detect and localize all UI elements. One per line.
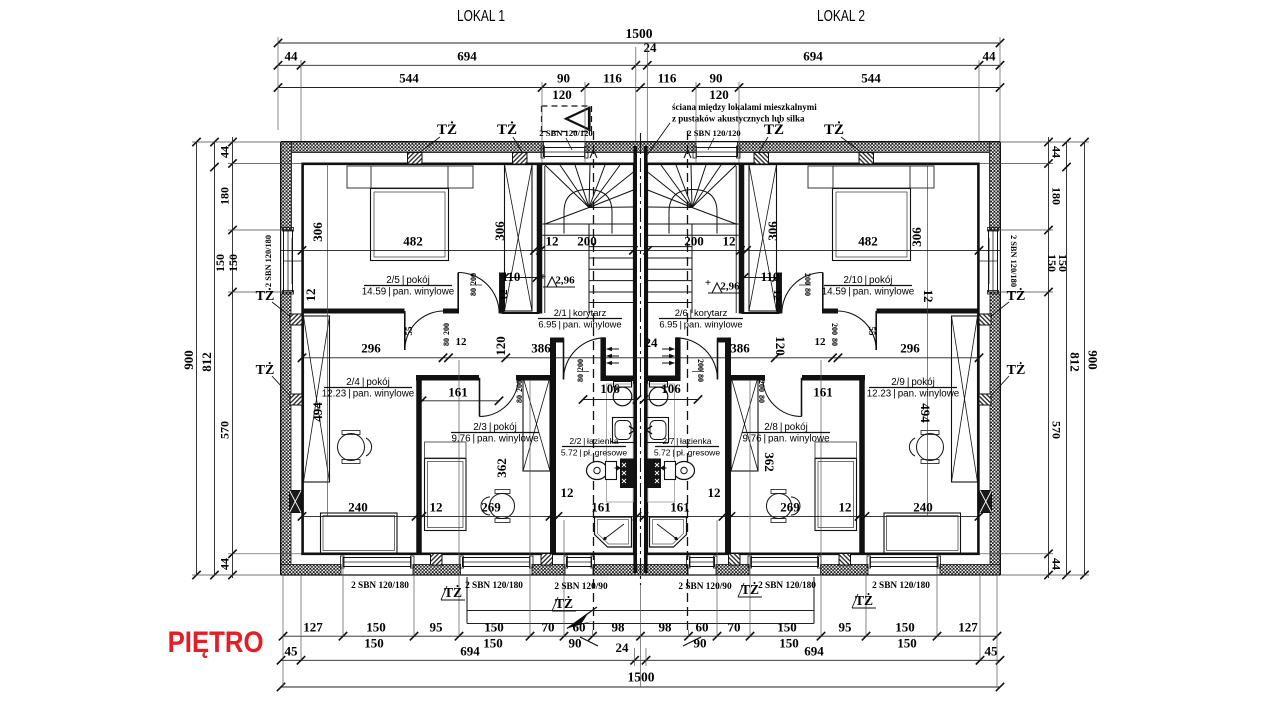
right extension lines: [1000, 141, 1089, 143]
svg-text:44: 44: [1050, 146, 1064, 158]
level mark 2,96 left: [540, 271, 575, 287]
svg-text:LOKAL 2: LOKAL 2: [817, 8, 865, 25]
svg-text:694: 694: [457, 49, 477, 64]
svg-text:98: 98: [659, 620, 673, 635]
washer 2/2: [621, 459, 634, 488]
wall hatch left: [281, 142, 292, 230]
svg-text:z pustaków akustycznych lub si: z pustaków akustycznych lub silka: [672, 114, 805, 124]
svg-text:60: 60: [573, 620, 586, 635]
svg-text:95: 95: [430, 620, 444, 635]
svg-text:2 SBN 120/180: 2 SBN 120/180: [264, 235, 273, 287]
label room 2/5: [362, 275, 455, 298]
party wall centerline dash-dot: [640, 133, 642, 585]
label bath 2/2: [561, 436, 628, 458]
svg-text:PIĘTRO: PIĘTRO: [168, 626, 264, 659]
svg-text:200: 200: [577, 234, 597, 249]
svg-text:14.59 | pan. winylowe: 14.59 | pan. winylowe: [822, 287, 915, 298]
top dim row 544/90/116: [278, 87, 1000, 89]
svg-text:12: 12: [303, 289, 318, 302]
svg-text:161: 161: [591, 500, 611, 515]
svg-text:80: 80: [442, 338, 451, 346]
svg-text:2/4 | pokój: 2/4 | pokój: [346, 377, 390, 388]
svg-text:98: 98: [612, 620, 626, 635]
svg-text:2/7 | łazienka: 2/7 | łazienka: [662, 436, 711, 446]
wall W3 stair left: [537, 163, 543, 314]
svg-text:2/10 | pokój: 2/10 | pokój: [844, 275, 893, 286]
svg-text:150: 150: [1056, 254, 1070, 272]
bed room 2/3: [425, 459, 467, 531]
svg-text:45: 45: [985, 644, 999, 659]
svg-text:12: 12: [498, 289, 510, 301]
svg-text:150: 150: [366, 620, 386, 635]
svg-text:12: 12: [815, 336, 827, 348]
svg-text:80: 80: [696, 374, 705, 382]
svg-text:200: 200: [576, 359, 585, 371]
svg-text:570: 570: [1050, 421, 1064, 439]
svg-text:14.59 | pan. winylowe: 14.59 | pan. winylowe: [362, 287, 455, 298]
window bottom 1 (room 2/4): [343, 558, 411, 567]
svg-text:90: 90: [710, 71, 723, 86]
bed room 2/5: [371, 189, 449, 261]
svg-text:269: 269: [780, 500, 800, 515]
svg-text:2 SBN 120/120: 2 SBN 120/120: [687, 128, 740, 138]
right dim col 900: [1084, 142, 1086, 575]
svg-text:200: 200: [515, 380, 524, 392]
svg-text:306: 306: [909, 227, 924, 247]
svg-text:362: 362: [762, 452, 777, 472]
svg-text:TŻ: TŻ: [437, 121, 457, 138]
left dim col 812: [214, 142, 216, 575]
desk room 2/4: [321, 513, 398, 553]
svg-text:24: 24: [616, 640, 630, 655]
window bottom 2 (room 2/3): [463, 558, 531, 567]
svg-text:44: 44: [983, 49, 997, 64]
wall E bath niche: [601, 375, 637, 381]
svg-text:306: 306: [765, 221, 780, 241]
dim 110 right: [744, 277, 777, 279]
wall D bath lobby: [600, 338, 606, 381]
svg-text:161: 161: [670, 500, 690, 515]
svg-text:12: 12: [771, 290, 783, 302]
sink 2/2: [613, 418, 635, 443]
svg-text:80: 80: [576, 374, 585, 382]
TZ block left wall 1: [290, 314, 302, 325]
svg-text:2/8 | pokój: 2/8 | pokój: [764, 422, 808, 433]
svg-text:2/6 | korytarz: 2/6 | korytarz: [675, 307, 728, 318]
svg-text:150: 150: [777, 620, 797, 635]
svg-text:TŻ: TŻ: [824, 121, 844, 138]
svg-text:150: 150: [226, 254, 240, 272]
level mark 2,96 right: [705, 277, 740, 293]
svg-text:120: 120: [709, 87, 729, 102]
svg-text:2 SBN 120/180: 2 SBN 120/180: [465, 581, 523, 591]
svg-text:110: 110: [761, 269, 780, 284]
door room 2/4: [404, 311, 406, 350]
svg-text:2 SBN 120/120: 2 SBN 120/120: [539, 128, 592, 138]
wall hatch top-left: [281, 142, 544, 153]
label corridor 2/6: [659, 307, 743, 330]
radiator arrows corridor: [607, 348, 620, 350]
door bathroom: [563, 338, 565, 380]
svg-text:12: 12: [561, 485, 574, 500]
inner wall line left: [301, 163, 304, 556]
svg-text:TŻ: TŻ: [497, 121, 517, 138]
right dim col 44/180/150/570/44: [1048, 137, 1050, 578]
wall F bath/room2/3: [550, 338, 556, 555]
svg-text:1500: 1500: [626, 26, 653, 41]
svg-text:70: 70: [542, 620, 555, 635]
wall hatch bottom-left: [281, 565, 341, 576]
svg-text:12: 12: [708, 485, 721, 500]
right dim col 812: [1066, 142, 1068, 575]
svg-text:482: 482: [858, 234, 878, 249]
chair room 2/4: [338, 434, 365, 461]
svg-text:2/2 | łazienka: 2/2 | łazienka: [569, 436, 618, 446]
svg-text:5.72 | pł. gresowe: 5.72 | pł. gresowe: [561, 448, 628, 458]
svg-text:127: 127: [958, 620, 978, 635]
svg-text:TŻ: TŻ: [256, 287, 275, 304]
svg-text:200: 200: [442, 323, 451, 335]
left extension lines: [192, 141, 281, 143]
svg-text:TŻ: TŻ: [256, 361, 275, 378]
svg-text:269: 269: [481, 500, 501, 515]
svg-text:90: 90: [557, 71, 570, 86]
svg-text:150: 150: [484, 620, 504, 635]
wardrobe room 2/5: [505, 165, 533, 312]
svg-text:694: 694: [460, 644, 480, 659]
label room 2/8: [742, 422, 830, 445]
svg-text:TŻ: TŻ: [764, 121, 784, 138]
svg-text:544: 544: [399, 71, 419, 86]
svg-text:150: 150: [897, 636, 917, 651]
svg-text:240: 240: [348, 500, 368, 515]
svg-text:45: 45: [285, 644, 299, 659]
top dim row 44/694/24/694/44: [278, 64, 1000, 66]
svg-text:80: 80: [515, 395, 524, 403]
bathroom finish outline: [607, 384, 634, 502]
svg-text:180: 180: [218, 187, 232, 205]
chimney block left wall: [290, 491, 302, 513]
svg-text:2 SBN 120/180: 2 SBN 120/180: [872, 581, 930, 591]
wardrobe room 2/4: [304, 316, 330, 482]
svg-text:2 SBN 120/90: 2 SBN 120/90: [554, 582, 608, 592]
wall W1 room2/5 bottom: [302, 309, 405, 314]
dim 161 room 2/3: [422, 400, 499, 402]
svg-text:812: 812: [1068, 352, 1083, 372]
svg-text:44: 44: [285, 49, 299, 64]
svg-text:306: 306: [310, 222, 325, 242]
svg-text:2/9 | pokój: 2/9 | pokój: [891, 377, 935, 388]
svg-text:240: 240: [913, 500, 933, 515]
door room 2/3: [479, 378, 481, 417]
svg-text:900: 900: [1086, 350, 1101, 370]
inner wall line bottom: [301, 552, 637, 555]
svg-text:44: 44: [1050, 558, 1064, 570]
svg-text:116: 116: [658, 71, 677, 86]
toilet 2/2: [614, 382, 632, 388]
svg-text:+: +: [705, 277, 711, 289]
label corridor 2/1: [538, 307, 622, 330]
TZ block left wall 2: [290, 394, 302, 405]
svg-text:2/5 | pokój: 2/5 | pokój: [386, 275, 430, 286]
left dim col 900: [196, 142, 198, 575]
svg-text:161: 161: [813, 385, 833, 400]
svg-text:2 SBN 120/180: 2 SBN 120/180: [1009, 235, 1018, 287]
bottom bracket: [466, 577, 468, 624]
svg-text:494: 494: [310, 402, 325, 422]
svg-text:9.76 | pan. winylowe: 9.76 | pan. winylowe: [742, 434, 830, 445]
WC side 2/2: [587, 462, 608, 480]
inner wall line top: [302, 163, 634, 166]
wall W7 room2/3 top: [416, 375, 479, 381]
svg-text:80: 80: [803, 288, 812, 296]
stair stringer line: [544, 166, 546, 313]
svg-text:90: 90: [569, 636, 582, 651]
svg-text:2/3 | pokój: 2/3 | pokój: [473, 422, 517, 433]
TZ block bottom wall 2: [541, 554, 553, 566]
svg-text:2,96: 2,96: [720, 281, 740, 293]
svg-text:362: 362: [494, 458, 509, 478]
svg-text:80: 80: [757, 395, 766, 403]
svg-text:106: 106: [600, 381, 620, 396]
shower 2/2: [595, 517, 632, 547]
chain line y358: [302, 357, 979, 359]
svg-text:12: 12: [921, 290, 936, 303]
chair room 2/3: [490, 494, 515, 519]
svg-text:494: 494: [918, 403, 933, 423]
dim 106 bath left: [583, 399, 637, 401]
stair walk dashed line: [593, 131, 595, 630]
window left wall 2 SBN 120/180: [284, 230, 293, 292]
svg-text:200: 200: [803, 273, 812, 285]
svg-text:12.23 | pan. winylowe: 12.23 | pan. winylowe: [322, 389, 415, 400]
svg-text:150: 150: [213, 254, 227, 272]
svg-text:200: 200: [696, 359, 705, 371]
svg-text:161: 161: [448, 385, 468, 400]
svg-text:2,96: 2,96: [555, 275, 575, 287]
svg-text:120: 120: [493, 336, 508, 356]
label room 2/9: [867, 377, 960, 400]
svg-text:60: 60: [696, 620, 709, 635]
left dim col 44/180/150/570/44: [232, 137, 234, 578]
svg-text:80: 80: [469, 288, 478, 296]
svg-text:386: 386: [531, 341, 551, 356]
stair winder arch: [564, 190, 612, 234]
svg-text:150: 150: [779, 636, 799, 651]
svg-text:ściana między lokalami mieszka: ściana między lokalami mieszkalnymi: [672, 102, 817, 112]
svg-text:694: 694: [804, 644, 824, 659]
bottom dim row3 1500: [281, 686, 1000, 688]
svg-text:1500: 1500: [628, 670, 655, 685]
shelf room 2/3: [425, 442, 467, 458]
svg-text:12: 12: [546, 234, 559, 249]
stair flight edge: [588, 224, 590, 313]
svg-text:200: 200: [684, 234, 704, 249]
svg-text:386: 386: [730, 341, 750, 356]
TZ block top wall 1: [408, 153, 423, 165]
stair treads lower flight: [543, 223, 634, 225]
svg-text:150: 150: [483, 636, 503, 651]
svg-text:90: 90: [694, 636, 707, 651]
svg-text:200: 200: [757, 380, 766, 392]
svg-text:+: +: [540, 271, 546, 283]
window top (stair) 2 SBN 120/120: [544, 148, 586, 157]
label bath 2/7: [654, 436, 721, 458]
svg-text:95: 95: [839, 620, 853, 635]
dim 106 bath right: [644, 399, 698, 401]
nightstands room 2/5: [347, 166, 473, 188]
svg-text:544: 544: [861, 71, 881, 86]
wardrobe room 2/3: [523, 377, 550, 471]
svg-text:70: 70: [728, 620, 741, 635]
svg-text:200: 200: [830, 323, 839, 335]
svg-text:6.95 | pan. winylowe: 6.95 | pan. winylowe: [659, 319, 742, 330]
svg-text:120: 120: [552, 87, 572, 102]
svg-text:200: 200: [469, 273, 478, 285]
svg-text:180: 180: [1050, 187, 1064, 205]
svg-text:296: 296: [361, 341, 381, 356]
svg-text:2 SBN 120/180: 2 SBN 120/180: [351, 581, 409, 591]
outer wall outline: [281, 141, 641, 143]
label room 2/10: [822, 275, 915, 298]
svg-text:12.23 | pan. winylowe: 12.23 | pan. winylowe: [867, 389, 960, 400]
label room 2/3: [451, 422, 539, 445]
svg-text:6.95 | pan. winylowe: 6.95 | pan. winylowe: [538, 319, 621, 330]
svg-text:24: 24: [644, 40, 658, 55]
svg-text:116: 116: [603, 71, 622, 86]
svg-text:296: 296: [900, 341, 920, 356]
svg-text:12: 12: [839, 500, 852, 515]
svg-text:2 SBN 120/180: 2 SBN 120/180: [758, 581, 816, 591]
svg-text:2 SBN 120/90: 2 SBN 120/90: [678, 582, 732, 592]
svg-text:106: 106: [661, 381, 681, 396]
section A marker bottom arrow: [567, 614, 594, 629]
wall stub W2: [499, 273, 505, 314]
svg-text:55: 55: [867, 327, 877, 337]
svg-text:812: 812: [199, 352, 214, 372]
svg-text:5.72 | pł. gresowe: 5.72 | pł. gresowe: [654, 448, 721, 458]
svg-text:44: 44: [218, 146, 232, 158]
party wall left leaf: [633, 146, 637, 573]
svg-text:24: 24: [645, 335, 659, 350]
bottom dim row2 45/694/24/694/45: [281, 659, 1000, 661]
svg-text:127: 127: [303, 620, 323, 635]
svg-text:306: 306: [492, 221, 507, 241]
svg-text:12: 12: [430, 500, 443, 515]
svg-text:12: 12: [456, 336, 468, 348]
svg-text:110: 110: [502, 269, 521, 284]
svg-text:55: 55: [404, 326, 414, 336]
svg-text:TŻ: TŻ: [1007, 361, 1026, 378]
top extension lines: [277, 37, 279, 130]
svg-text:694: 694: [803, 49, 823, 64]
door room 2/5: [457, 273, 459, 314]
svg-text:900: 900: [181, 350, 196, 370]
svg-text:482: 482: [403, 234, 423, 249]
svg-text:12: 12: [723, 234, 736, 249]
bottom extension lines: [282, 576, 284, 687]
svg-text:2/1 | korytarz: 2/1 | korytarz: [554, 307, 607, 318]
chain line y250: [281, 249, 1000, 251]
svg-text:LOKAL 1: LOKAL 1: [457, 8, 505, 25]
svg-text:150: 150: [364, 636, 384, 651]
svg-text:120: 120: [773, 336, 788, 356]
wall W8 room2/3 left: [416, 375, 422, 554]
svg-text:570: 570: [218, 421, 232, 439]
label room 2/4: [322, 377, 415, 400]
room dim guide lines 306: [327, 164, 329, 516]
svg-text:150: 150: [895, 620, 915, 635]
TZ block top wall 2: [513, 153, 528, 165]
stair winder rays: [545, 165, 589, 208]
top dim row 1500: [278, 42, 1000, 44]
bottom dim row1: [283, 635, 997, 637]
svg-text:TŻ: TŻ: [1007, 287, 1026, 304]
section A marker top: [542, 105, 592, 107]
TZ block bottom wall 1: [431, 554, 443, 566]
svg-text:44: 44: [218, 558, 232, 570]
svg-text:80: 80: [830, 338, 839, 346]
chain line y516: [302, 515, 979, 517]
window bottom 3 (bathroom) 120/90: [567, 558, 592, 567]
right apartment mirrored geometry: [641, 131, 1001, 646]
dim 110 left: [505, 277, 538, 279]
svg-text:9.76 | pan. winylowe: 9.76 | pan. winylowe: [451, 434, 539, 445]
